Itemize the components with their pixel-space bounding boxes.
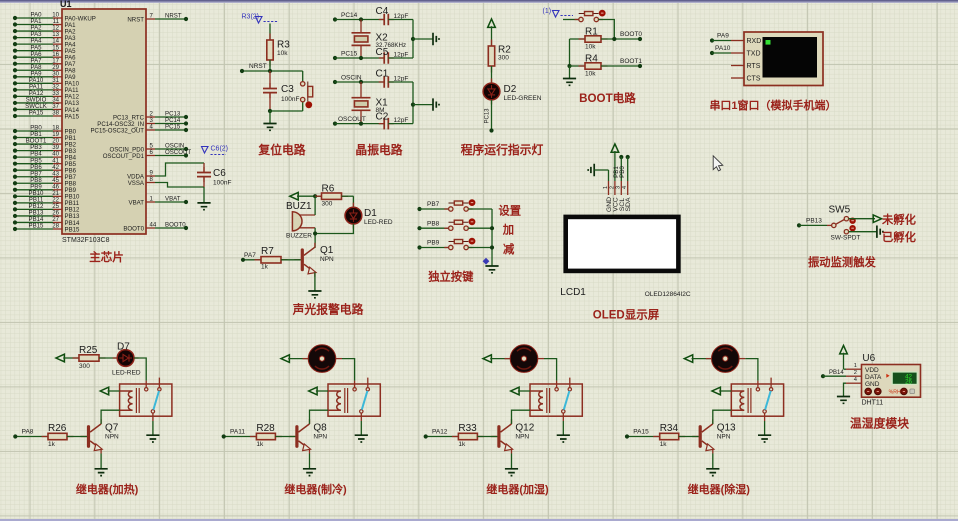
svg-text:C6(2): C6(2) [211, 146, 229, 153]
power symbol relay coil 2 [309, 387, 328, 395]
capacitor C5 12pF [376, 47, 414, 64]
U1 pin 33 PA12 / terminal PA12 [13, 90, 80, 101]
ground below C6 [197, 203, 210, 210]
power symbol relay coil 1 [100, 387, 119, 395]
svg-text:串口1窗口（模拟手机端）: 串口1窗口（模拟手机端） [709, 98, 836, 112]
U1 pin 34 PA13 / terminal SWDIO [13, 97, 80, 108]
svg-text:PB15: PB15 [65, 226, 81, 233]
svg-text:D7: D7 [117, 342, 130, 353]
ground left of OLED [588, 164, 608, 176]
power symbol alarm [290, 192, 322, 200]
svg-text:300: 300 [79, 363, 90, 370]
crystal X2 32.768KHz [352, 20, 407, 59]
svg-text:NPN: NPN [515, 434, 529, 441]
svg-text:Q8: Q8 [313, 423, 327, 434]
transistor Q12 NPN [491, 420, 535, 454]
svg-text:TXD: TXD [747, 51, 761, 58]
svg-text:1k: 1k [48, 441, 56, 448]
svg-text:26: 26 [905, 379, 912, 386]
svg-text:继电器(加热): 继电器(加热) [76, 482, 139, 496]
DHT11 green screen [886, 371, 918, 385]
svg-text:PA12: PA12 [432, 429, 448, 436]
wire emitter to ground 1 [100, 454, 102, 469]
U1 pin 17 PA7 / terminal PA7 [13, 57, 76, 68]
svg-text:OLED12864I2C: OLED12864I2C [645, 291, 691, 298]
svg-text:OSCIN: OSCIN [341, 75, 362, 82]
power symbol relay coil 4 [712, 387, 731, 395]
svg-text:38: 38 [52, 110, 59, 117]
svg-text:C2: C2 [376, 112, 389, 123]
svg-text:BOOT0: BOOT0 [620, 31, 642, 38]
U1 pin 12 PA2 / terminal PA2 [13, 25, 76, 36]
svg-text:1k: 1k [458, 441, 466, 448]
wire collector 3 [511, 420, 513, 424]
U1 pin 15 PA5 / terminal PA5 [13, 44, 76, 55]
svg-text:1k: 1k [660, 441, 668, 448]
svg-text:NPN: NPN [313, 434, 327, 441]
ground below Q13 [706, 469, 719, 476]
svg-text:温湿度模块: 温湿度模块 [850, 417, 909, 431]
junction X2 top [359, 17, 363, 21]
svg-text:PA11: PA11 [230, 429, 245, 436]
wire collector 1 [100, 420, 102, 424]
svg-text:PC15: PC15 [165, 124, 181, 131]
svg-text:1k: 1k [261, 264, 269, 271]
terminal pin TXD [731, 51, 761, 58]
wire SW5 throw1 to power [849, 218, 875, 220]
svg-text:PA15: PA15 [65, 113, 80, 120]
svg-text:PB0: PB0 [619, 166, 626, 178]
svg-text:PB14: PB14 [829, 370, 844, 376]
svg-text:D2: D2 [504, 84, 517, 95]
U1 pin 26 PB13 / terminal PB13 [13, 210, 80, 221]
terminal pin RTS [731, 63, 761, 70]
wire relay contact to ground 1 [152, 421, 154, 435]
svg-text:PB7: PB7 [427, 201, 440, 208]
resistor R3 10k [267, 34, 290, 67]
U1 pin 41 PB5 / terminal PB5 [13, 157, 77, 168]
wire collector 2 [309, 420, 311, 424]
wire emitter to ground 2 [309, 454, 311, 469]
transistor Q13 NPN [692, 420, 736, 454]
svg-text:2: 2 [609, 186, 615, 189]
terminal PB7 [417, 201, 448, 211]
wire relay coil to collector 1 [101, 410, 120, 420]
svg-text:10k: 10k [585, 71, 596, 78]
svg-text:3: 3 [616, 186, 622, 189]
power symbol relay 4 [684, 355, 711, 363]
LCD1 OLED display body [563, 215, 680, 274]
wire relay contact to ground 3 [562, 421, 564, 435]
svg-text:NRST: NRST [165, 13, 182, 20]
wire D1 to collector node [315, 224, 353, 234]
svg-text:主芯片: 主芯片 [89, 250, 124, 264]
wire C6 to ground [203, 187, 205, 203]
wire motor to relay 3 [505, 358, 511, 360]
svg-text:DATA: DATA [865, 374, 882, 381]
svg-text:RTS: RTS [747, 63, 761, 70]
ground below relay 3 [557, 435, 570, 442]
terminal PB0 / OLED pin 4 SDA [619, 155, 632, 212]
svg-text:300: 300 [322, 201, 333, 208]
capacitor C3 100nF [263, 71, 299, 111]
svg-text:OLED显示屏: OLED显示屏 [593, 309, 660, 322]
capacitor C6 100nF [197, 163, 231, 187]
wire R2 to D2 [491, 66, 493, 83]
ground below DHT11 [837, 397, 850, 404]
svg-text:100nF: 100nF [281, 96, 299, 103]
ground right of X2 [433, 33, 439, 45]
resistor R26 1k [15, 423, 87, 448]
U1 pin 2 PC13_RTC / terminal PC13 [113, 111, 188, 122]
crystal X1 8M [352, 82, 389, 124]
svg-text:减: 减 [503, 242, 515, 256]
relay body [530, 378, 582, 421]
svg-text:300: 300 [498, 55, 509, 62]
svg-text:D1: D1 [364, 208, 377, 219]
U1 pin 22 PB11 / terminal PB11 [13, 196, 80, 207]
svg-text:BUZ1: BUZ1 [286, 201, 312, 212]
U1 pin 4 PC15-OSC32_OUT / terminal PC15 [90, 124, 188, 135]
U1 pin 14 PA4 / terminal PA4 [13, 38, 76, 49]
resistor R1 10k [570, 27, 641, 51]
resistor R25 300 [73, 345, 118, 370]
svg-text:C1: C1 [376, 69, 389, 80]
resistor R28 1k [224, 423, 296, 448]
svg-text:Q1: Q1 [320, 245, 334, 256]
ground below relay 1 [146, 435, 159, 442]
power symbol relay 1 [56, 354, 79, 362]
wire emitter to ground 3 [511, 454, 513, 469]
svg-text:SDA: SDA [625, 197, 632, 211]
svg-text:OSCOUT: OSCOUT [165, 149, 191, 156]
svg-text:1: 1 [854, 363, 857, 369]
svg-text:C6: C6 [213, 168, 226, 179]
resistor R33 1k [426, 423, 498, 448]
U1 pin 46 PB9 / terminal PB9 [13, 183, 77, 194]
svg-text:C3: C3 [281, 84, 294, 95]
svg-text:SW5: SW5 [829, 205, 851, 216]
svg-text:PA8: PA8 [22, 429, 34, 436]
capacitor C1 12pF [376, 69, 414, 88]
svg-text:未孵化: 未孵化 [881, 213, 917, 227]
svg-text:R34: R34 [660, 423, 679, 434]
ground below R4 [563, 66, 576, 85]
U1 pin 43 PB7 / terminal PB7 [13, 170, 77, 181]
svg-text:PA9: PA9 [717, 33, 729, 40]
svg-text:U6: U6 [862, 353, 875, 364]
terminal PA12 [424, 429, 448, 439]
terminal PA8 [13, 429, 34, 439]
wire relay contact to ground 4 [764, 421, 766, 435]
terminal OSCOUT [333, 116, 384, 126]
wire collector 4 [712, 420, 714, 424]
svg-text:PB13: PB13 [806, 218, 822, 225]
svg-text:U1: U1 [60, 0, 72, 9]
resistor R2 300 [488, 40, 511, 73]
terminal PB1 / OLED pin 3 SCL [613, 155, 626, 211]
BOOT push button [579, 13, 599, 15]
ground below Q1 [308, 291, 321, 298]
terminal BOOT1 [620, 58, 642, 68]
bottom window bar [0, 519, 958, 521]
svg-text:继电器(加湿): 继电器(加湿) [486, 482, 549, 496]
OLED pin 2 VCC [609, 151, 619, 212]
svg-text:Q13: Q13 [717, 423, 736, 434]
svg-text:SW-SPDT: SW-SPDT [831, 235, 861, 242]
push button PB9 [449, 241, 469, 243]
wire to R3 top [269, 24, 271, 41]
terminal PC15 [333, 51, 384, 61]
terminal PA9 [710, 33, 731, 43]
power symbol DHT11 [840, 346, 848, 370]
junction bus PB9 [490, 245, 494, 249]
ground below relay 4 [758, 435, 771, 442]
terminal PB9 [417, 240, 448, 250]
terminal PC13 bottom [489, 128, 493, 132]
power symbol relay coil 3 [511, 387, 530, 395]
relay body [120, 378, 172, 421]
svg-text:2: 2 [854, 370, 857, 376]
svg-text:PC13: PC13 [485, 108, 491, 124]
resistor R6 300 [315, 184, 353, 208]
push button PB7 [449, 202, 469, 204]
U1 pin 7 NRST / terminal NRST [127, 13, 188, 24]
svg-text:PC14: PC14 [341, 12, 358, 19]
terminal PA7 [241, 252, 256, 262]
svg-text:BUZZER: BUZZER [286, 233, 312, 240]
OLED pin 1 GND [603, 170, 613, 212]
wire emitter to ground [314, 272, 316, 291]
U1 pin 42 PB6 / terminal PB6 [13, 164, 77, 175]
junction bus PB8 [490, 226, 494, 230]
svg-text:NRST: NRST [249, 63, 267, 70]
annotation R3(2) [242, 14, 279, 24]
U1 pin 39 PB3 / terminal PB3 [13, 144, 77, 155]
power symbol relay 3 [483, 355, 510, 363]
virtual terminal body [744, 32, 823, 86]
junction collector node [313, 231, 317, 235]
terminal PB14 [821, 370, 846, 378]
mouse cursor [713, 156, 723, 171]
U1 pin 31 PA10 / terminal PA10 [13, 77, 80, 88]
U1 pin 21 PB10 / terminal PB10 [13, 190, 80, 201]
U1 pin 44 BOOT0 / terminal BOOT0 [123, 222, 188, 233]
wire motor to relay 4 [706, 358, 712, 360]
relay body [731, 378, 783, 421]
node NRST wire [240, 63, 303, 73]
svg-text:DHT11: DHT11 [862, 400, 884, 407]
svg-text:程序运行指示灯: 程序运行指示灯 [461, 143, 544, 157]
terminal BOOT0 [620, 31, 642, 41]
U1 pin 28 PB15 / terminal PB15 [13, 223, 80, 234]
U1 pin 45 PB8 / terminal PB8 [13, 177, 77, 188]
U1 pin 9 VDDA [127, 163, 204, 180]
ground below Q12 [505, 469, 518, 476]
annotation C6(2) [202, 146, 229, 155]
junction buzzer top [313, 194, 317, 198]
svg-text:R28: R28 [256, 423, 275, 434]
U1 pin 29 PA8 / terminal PA8 [13, 64, 76, 75]
power symbol right [873, 215, 881, 223]
button bus wire [491, 209, 493, 266]
svg-text:PC15-OSC32_OUT: PC15-OSC32_OUT [90, 127, 144, 134]
wire relay contact to ground 2 [360, 421, 362, 435]
svg-text:1: 1 [603, 186, 609, 189]
svg-text:继电器(制冷): 继电器(制冷) [284, 482, 347, 496]
DHT11 pin 2 DATA [846, 370, 882, 381]
junction right X2 [411, 37, 415, 41]
terminal PB8 [417, 220, 448, 230]
svg-text:继电器(除湿): 继电器(除湿) [688, 482, 751, 496]
wire to boot button [563, 19, 579, 21]
svg-text:R1: R1 [585, 27, 598, 38]
terminal black screen [763, 37, 818, 78]
svg-text:加: 加 [502, 223, 514, 237]
svg-text:C5: C5 [376, 47, 389, 58]
svg-text:GND: GND [865, 381, 880, 388]
wire R1 to R4 [569, 39, 571, 66]
power symbol above R2 [488, 19, 496, 46]
svg-text:10k: 10k [585, 44, 596, 51]
ground below relay 2 [355, 435, 368, 442]
transistor Q8 NPN [289, 420, 328, 454]
svg-text:PA15: PA15 [29, 110, 44, 117]
U1 pin 25 PB12 / terminal PB12 [13, 203, 80, 214]
resistor R4 10k [570, 54, 641, 78]
relay body [328, 378, 380, 421]
U1 pin 16 PA6 / terminal PA6 [13, 51, 76, 62]
U1 pin 13 PA3 / terminal PA3 [13, 31, 76, 42]
power symbol OLED VCC [611, 144, 619, 152]
DHT11 pin 4 GND [846, 377, 880, 388]
bus net marker [483, 258, 490, 265]
svg-text:R7: R7 [261, 246, 274, 257]
junction C3 bottom [268, 109, 272, 113]
wire right side X2 [412, 20, 414, 59]
U1 pin 5 OSCIN_PD0 / terminal OSCIN [109, 143, 188, 154]
wire C3 bottom to button [270, 110, 303, 112]
svg-text:STM32F103C8: STM32F103C8 [62, 237, 110, 244]
top window bar [0, 0, 958, 2]
U1 STM32F103C8 main chip body [62, 9, 146, 234]
svg-text:R25: R25 [79, 345, 98, 356]
wire R6 to D1 [352, 196, 354, 207]
U1 pin 40 PB4 / terminal PB4 [13, 151, 77, 162]
junction R3/C3 [268, 69, 272, 73]
svg-text:PB9: PB9 [427, 240, 440, 247]
svg-text:BOOT0: BOOT0 [123, 225, 144, 232]
svg-text:R3: R3 [277, 40, 290, 51]
svg-text:声光报警电路: 声光报警电路 [292, 303, 364, 317]
svg-text:Q12: Q12 [515, 423, 534, 434]
push button PB8 [449, 221, 469, 223]
svg-text:NPN: NPN [320, 256, 334, 263]
svg-text:RXD: RXD [747, 38, 762, 45]
terminal PA10 [710, 45, 731, 55]
svg-text:BOOT1: BOOT1 [620, 58, 642, 65]
LED D2 LED-GREEN [483, 79, 542, 105]
svg-text:PB15: PB15 [29, 223, 45, 230]
U1 pin 32 PA11 / terminal PA11 [13, 83, 79, 94]
svg-text:R33: R33 [458, 423, 477, 434]
resistor R34 1k [627, 423, 699, 448]
U1 pin 3 PC14-OSC32_IN / terminal PC14 [97, 117, 188, 128]
ground below Q8 [303, 469, 316, 476]
buzzer BUZ1 [286, 201, 315, 240]
svg-text:NRST: NRST [127, 16, 144, 23]
junction X1 top [359, 80, 363, 84]
U1 pin 27 PB14 / terminal PB14 [13, 216, 80, 227]
svg-text:OSCOUT_PD1: OSCOUT_PD1 [103, 153, 145, 160]
annotation (1) [543, 8, 574, 17]
ground below C3 [263, 111, 276, 130]
wire motor to relay 2 [303, 358, 309, 360]
svg-text:已孵化: 已孵化 [882, 230, 917, 244]
wire GND pin to ground [844, 383, 847, 396]
capacitor C4 12pF [376, 6, 414, 25]
transistor Q1 NPN [294, 243, 334, 277]
svg-text:PA7: PA7 [244, 252, 256, 259]
U1 pin 18 PB0 / terminal PB0 [13, 125, 77, 136]
svg-text:PA15: PA15 [633, 429, 649, 436]
svg-text:VDD: VDD [865, 367, 879, 374]
terminal pin CTS [731, 76, 761, 83]
svg-text:PC15: PC15 [341, 51, 358, 58]
svg-text:NPN: NPN [717, 434, 731, 441]
DHT11 pin 1 VDD [846, 363, 879, 374]
svg-text:R26: R26 [48, 423, 67, 434]
junction X1 bottom [359, 122, 363, 126]
U1 pin 6 OSCOUT_PD1 / terminal OSCOUT [103, 149, 192, 160]
terminal PA15 [625, 429, 649, 439]
svg-text:PB8: PB8 [427, 220, 440, 227]
svg-text:LED-RED: LED-RED [364, 219, 393, 226]
switch SW5 SW-SPDT [829, 205, 861, 242]
U1 pin 8 VSSA [128, 176, 204, 187]
terminal cursor [766, 40, 771, 45]
wire buzzer pins [314, 196, 316, 215]
svg-text:NPN: NPN [105, 434, 119, 441]
U1 pin 1 VBAT / terminal VBAT [129, 196, 189, 207]
wire button to BOOT0 node [598, 20, 614, 40]
svg-text:10k: 10k [277, 50, 288, 57]
motor load relay 3 [510, 345, 538, 373]
svg-text:CTS: CTS [747, 76, 761, 83]
wire SW5 throw2 to ground [849, 231, 877, 233]
DHT11 buttons [865, 388, 915, 395]
junction R4 left [567, 64, 571, 68]
svg-text:VBAT: VBAT [129, 199, 145, 206]
wire button PB7 to bus [468, 208, 492, 210]
ground below button bus [485, 266, 498, 273]
svg-text:LED-GREEN: LED-GREEN [504, 95, 542, 102]
svg-text:复位电路: 复位电路 [257, 143, 305, 157]
wire button PB9 to bus [468, 247, 492, 249]
terminal PC14 [333, 12, 384, 22]
wire emitter to ground 4 [712, 454, 714, 469]
ground below Q7 [95, 469, 108, 476]
junction BOOT0 [612, 37, 616, 41]
wire relay coil to collector 2 [310, 410, 329, 420]
svg-text:BOOT电路: BOOT电路 [579, 91, 636, 105]
wire relay coil to collector 4 [713, 410, 732, 420]
wire to ground X2 [413, 38, 433, 40]
capacitor C2 12pF [376, 112, 414, 130]
transistor Q7 NPN [81, 420, 120, 454]
motor load relay 2 [308, 345, 336, 373]
svg-text:VSSA: VSSA [128, 180, 145, 187]
